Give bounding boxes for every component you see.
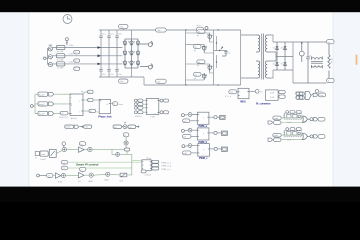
svg-text:Vdc: Vdc — [157, 81, 160, 83]
svg-text:T1Sw: T1Sw — [146, 158, 152, 160]
out2 oval — [163, 111, 168, 114]
mini row arrow — [80, 126, 84, 128]
wire T2 right green — [68, 167, 132, 169]
DC bus top rail — [99, 29, 241, 31]
IGBT S2 — [202, 45, 207, 52]
PWM group c wire in1 — [185, 145, 198, 148]
PWMU out oval b — [152, 164, 159, 167]
svg-text:D1: D1 — [273, 48, 275, 50]
svg-text:3ph dq: 3ph dq — [71, 118, 77, 120]
svg-text:ld: ld — [35, 158, 36, 160]
out1 circle — [159, 99, 163, 102]
svg-text:AvgdT: AvgdT — [39, 113, 46, 116]
svg-text:a: a — [71, 97, 72, 99]
svg-text:g2: g2 — [194, 50, 196, 52]
logic group 2 out tag — [314, 135, 325, 139]
svg-text:gatA: gatA — [274, 117, 279, 120]
snubber capacitor — [222, 51, 228, 57]
svg-text:0.4kv: 0.4kv — [69, 53, 74, 55]
from tag row1 oval — [138, 99, 143, 102]
block MUX — [238, 88, 249, 103]
sum circle 3 — [116, 153, 120, 157]
logic group 1 input tag B — [268, 121, 281, 125]
svg-text:th0: th0 — [114, 126, 117, 129]
svg-text:C2u: C2u — [110, 74, 113, 76]
svg-text:R1: R1 — [331, 59, 333, 61]
AC source Vc — [48, 63, 53, 67]
ref tag T1 oval — [61, 160, 68, 164]
PWM group b wire in2 — [191, 135, 197, 137]
wire row a — [54, 93, 70, 95]
gate tag g1 — [197, 30, 205, 34]
svg-text:th: th — [113, 103, 115, 106]
svg-text:Tm: Tm — [48, 176, 51, 178]
source circle above sum1 — [62, 142, 66, 148]
wire merge out — [311, 93, 314, 96]
filter capacitor C2 column — [107, 30, 111, 77]
mini row2 oval — [113, 125, 122, 129]
tag Vm oval — [88, 98, 94, 102]
svg-text:b: b — [71, 105, 72, 107]
junction dots on rails — [185, 29, 218, 85]
mini row tag oval — [84, 125, 92, 129]
svg-text:C1u: C1u — [102, 34, 105, 36]
from tag AvgdT a — [38, 92, 48, 96]
wire sumL3 to sat — [110, 173, 120, 176]
logic group 1 OR gate — [303, 116, 308, 122]
wire oval to tri — [53, 175, 56, 177]
mini row pentagon — [74, 125, 79, 128]
logic group 1 input tag A — [273, 116, 281, 120]
phase junction dot — [219, 50, 220, 51]
svg-text:PWM_c: PWM_c — [199, 157, 208, 160]
gain triangle 1 — [79, 147, 85, 152]
svg-text:Ic: Ic — [75, 69, 77, 71]
wire PLL out — [111, 103, 113, 105]
svg-text:Load: Load — [41, 154, 45, 156]
goto pentagon a — [49, 92, 54, 96]
voltage tag Vab oval — [119, 24, 129, 30]
out1 oval — [163, 99, 168, 102]
tag freq oval — [89, 109, 99, 113]
svg-text:o: o — [155, 113, 156, 115]
logic group 1 out circle — [308, 118, 313, 121]
letterbox bar bottom — [0, 187, 360, 202]
svg-text:Flag: Flag — [319, 95, 323, 97]
svg-text:1k: 1k — [331, 62, 333, 64]
PWM group c source circle — [182, 144, 192, 148]
logic group 2 OR gate — [303, 133, 308, 139]
PWM group a from oval — [183, 119, 190, 123]
measurement hook bottom — [140, 64, 152, 69]
goto tag Ia — [74, 51, 80, 55]
merge row2 circles — [296, 96, 303, 99]
pre block tiny — [35, 152, 39, 160]
svg-text:Phase_lock: Phase_lock — [98, 115, 112, 118]
current meter output — [299, 42, 304, 62]
goto pentagon b — [49, 102, 54, 106]
wire phase A — [53, 47, 123, 49]
svg-text:p: p — [203, 117, 204, 119]
svg-text:C3u: C3u — [118, 74, 121, 76]
svg-text:SatFl: SatFl — [270, 92, 275, 95]
svg-text:u-Tfeed: u-Tfeed — [144, 174, 151, 176]
H-bridge inner rail — [213, 30, 215, 85]
svg-text:p: p — [204, 149, 205, 151]
svg-text:C3u: C3u — [118, 34, 121, 36]
transformer T1 core — [262, 34, 264, 80]
logic group 2 input tag B — [268, 138, 281, 142]
bus step wire — [143, 77, 145, 85]
rectifier bridge leg 3 — [136, 39, 139, 68]
svg-text:AvgdT: AvgdT — [39, 93, 46, 96]
subsystem M block — [266, 90, 279, 100]
input port node N — [43, 57, 47, 60]
svg-text:C2u: C2u — [110, 34, 113, 36]
block LoadT — [40, 151, 48, 161]
PWM b out circle — [214, 131, 217, 134]
ref tag T2 oval — [61, 166, 68, 170]
signal arrow A — [98, 46, 101, 49]
svg-text:SatFl: SatFl — [270, 96, 275, 99]
output capacitor — [306, 42, 310, 83]
rate limiter block — [49, 149, 56, 157]
PWMU out oval c — [152, 167, 159, 170]
svg-text:Vdc: Vdc — [157, 30, 160, 32]
logic group 2 const ovals — [286, 128, 301, 131]
input bus vertical — [35, 94, 38, 113]
sum circle L2 — [89, 173, 93, 177]
output port tag top — [327, 40, 335, 44]
svg-text:1-DM T(u): 1-DM T(u) — [59, 117, 68, 119]
ref oval mid — [124, 148, 130, 154]
source bus vertical — [47, 48, 49, 65]
aux rail dots — [216, 42, 217, 62]
subsystem Phase_lock — [98, 99, 112, 118]
IGBT S1 — [208, 33, 213, 41]
input port In1 — [30, 105, 35, 108]
output left vertical — [292, 42, 294, 83]
bridge device diode ticks — [123, 41, 135, 62]
svg-text:Ib: Ib — [75, 61, 77, 63]
diode D4 — [284, 63, 287, 66]
PWM_U generator block — [142, 160, 151, 171]
svg-text:AvgdT: AvgdT — [39, 103, 46, 106]
phase arrow — [221, 47, 223, 49]
svg-text:Sat1: Sat1 — [120, 179, 124, 182]
wire sumL1 to gain2 — [66, 174, 79, 176]
window margin right — [333, 12, 360, 187]
svg-text:th: th — [107, 103, 109, 106]
gate tag g4 — [194, 72, 202, 76]
capacitor C2 labels — [110, 34, 113, 76]
wire block1 out2 — [83, 99, 88, 101]
phase out line — [214, 50, 228, 52]
PWM group c from oval — [182, 151, 191, 155]
aux tag above rail — [197, 25, 209, 31]
svg-text:PWM_U_c: PWM_U_c — [161, 169, 171, 171]
svg-text:M_converter: M_converter — [256, 102, 270, 105]
gate label texts — [194, 35, 199, 80]
filter capacitor C1 column — [99, 30, 103, 77]
logic group 2 delay box dashed — [285, 130, 302, 136]
svg-text:E T L s: E T L s — [225, 96, 231, 98]
output port tag bottom — [327, 78, 335, 82]
capacitor C1 labels — [102, 34, 105, 76]
svg-text:Add2: Add2 — [89, 180, 93, 183]
from tag row2 circle — [134, 103, 137, 106]
transformer T1 primary winding upper — [256, 35, 260, 52]
PWM group c wire in2 — [191, 152, 198, 154]
svg-text:g1: g1 — [197, 35, 199, 37]
svg-text:V-: V- — [328, 81, 330, 83]
voltage tag Vab2 oval bottom — [119, 79, 129, 83]
from tag AvgdT c — [38, 111, 48, 115]
capacitor C3 labels — [118, 34, 121, 76]
sum circle 2 — [88, 147, 92, 151]
wire phase C — [53, 63, 123, 65]
canvas edge left — [28, 12, 30, 187]
tag theta oval — [113, 102, 124, 106]
wire sum down — [125, 145, 127, 148]
logic group 2 input tag A — [273, 133, 281, 137]
DC bus bottom rail left — [99, 76, 144, 78]
mini row2 arrow — [136, 126, 139, 128]
svg-text:D4: D4 — [281, 64, 283, 66]
logic group 1 delay box dashed — [285, 113, 302, 119]
svg-text:LoadT: LoadT — [40, 159, 46, 161]
lower triangle 1 — [55, 173, 61, 178]
PWM block c — [198, 144, 210, 157]
wire gain1 to sum2 — [84, 149, 88, 151]
mini row2 tag oval — [128, 125, 136, 129]
svg-text:dc in: dc in — [197, 25, 201, 27]
subsystem comp — [146, 99, 159, 119]
PWM group b wire in1 — [184, 129, 197, 132]
gain Ki oval — [80, 167, 86, 172]
load resistor label — [331, 59, 333, 64]
mini row goto oval — [65, 125, 74, 129]
wire phase B — [53, 55, 123, 57]
saturation block — [120, 173, 127, 177]
bridge top tie — [125, 30, 138, 39]
from tag row2 oval — [138, 103, 143, 106]
PWM group b from oval — [182, 134, 191, 138]
measurement hook top — [140, 41, 152, 46]
PWM block a — [197, 112, 209, 124]
tag Vabc oval — [88, 90, 94, 94]
merge row2 oval — [296, 96, 304, 100]
secondary wires — [270, 35, 294, 78]
signal arrow C — [98, 63, 101, 66]
M block out tag 2 — [279, 95, 285, 98]
sum circle L3 — [106, 172, 110, 176]
wire tri to sumL1 — [60, 175, 62, 177]
lookup table 1-D T(u) — [59, 111, 68, 119]
wire sum3 out — [120, 154, 132, 160]
svg-text:Ta s-Rb: Ta s-Rb — [57, 68, 64, 70]
H-bridge left rail — [185, 30, 187, 85]
series RL branch Zb — [56, 54, 65, 62]
AC source Va — [48, 47, 53, 51]
wire row c — [54, 113, 60, 115]
svg-text:PWM_U_b: PWM_U_b — [161, 166, 172, 168]
svg-text:0.4kv: 0.4kv — [69, 61, 74, 63]
wire lookup to block — [68, 113, 70, 115]
sum circle 1 — [62, 147, 66, 151]
input port lower — [37, 174, 47, 177]
svg-text:latch: latch — [287, 121, 291, 124]
logic group 2 out circle — [308, 135, 313, 138]
svg-text:Cs: Cs — [228, 52, 230, 54]
svg-text:Vr: Vr — [124, 135, 126, 137]
wire row b — [54, 103, 70, 105]
PWM group b source circle — [181, 128, 192, 132]
out2 circle — [159, 111, 163, 114]
svg-text:fq: fq — [90, 111, 92, 113]
wire sumL2 right — [93, 173, 105, 176]
choke winding lower — [312, 65, 323, 68]
choke core — [311, 62, 323, 64]
svg-text:D3: D3 — [281, 48, 283, 50]
diode D3 — [284, 42, 287, 70]
signal arrow B — [98, 54, 101, 57]
filter capacitor C3 column — [115, 30, 119, 77]
svg-text:C1u: C1u — [309, 55, 312, 57]
wire loadT chain — [48, 150, 62, 153]
canvas edge right — [332, 12, 334, 187]
merge row1 oval — [296, 92, 304, 96]
from tag row4 oval — [138, 111, 143, 114]
svg-text:1e3w: 1e3w — [66, 127, 71, 129]
PWM b out block — [217, 131, 227, 135]
bridge bottom tie — [125, 68, 138, 77]
svg-text:ZOH1-4: ZOH1-4 — [135, 116, 142, 118]
letterbox bar top — [0, 0, 360, 12]
gain triangle 2 — [79, 172, 85, 178]
PWM group a wire in1 — [184, 114, 197, 117]
gate tag g2 — [194, 45, 202, 49]
PWM a out circle — [214, 116, 217, 119]
from tag row1 circle — [134, 99, 137, 102]
from tag AvgdT b — [38, 102, 48, 106]
svg-text:u: u — [79, 101, 80, 103]
from tag row3 circle — [134, 106, 137, 109]
transformer T1 primary winding lower — [256, 61, 260, 78]
PWM group a source circle — [181, 113, 192, 117]
merge row1 circles — [296, 92, 303, 95]
svg-text:C1u: C1u — [102, 74, 105, 76]
IGBT S3 — [208, 64, 213, 72]
svg-text:g2: g2 — [195, 47, 197, 49]
sum junction upper — [124, 141, 128, 145]
diode D1 — [276, 42, 279, 70]
svg-text:MUX: MUX — [240, 100, 246, 103]
rectifier rail top — [273, 41, 327, 43]
wire MUX out — [249, 91, 255, 93]
wires rows to subsystem — [143, 101, 146, 113]
PWM b out wire — [209, 132, 214, 134]
wire sat up to bus — [127, 161, 132, 175]
svg-text:mU: mU — [183, 121, 187, 123]
series RL branch Za — [56, 45, 65, 53]
goto tag Ic — [74, 67, 80, 71]
svg-text:Add3: Add3 — [105, 179, 109, 182]
wire ref to sum — [125, 137, 127, 141]
window margin left — [0, 12, 29, 187]
svg-text:p: p — [203, 133, 204, 135]
AC source Vb — [48, 55, 53, 59]
svg-text:1 GW: 1 GW — [150, 117, 155, 119]
logic group 2 wires — [281, 131, 303, 140]
clock block — [63, 15, 72, 24]
svg-text:latch: latch — [287, 138, 291, 141]
transformer T1 secondary winding lower — [266, 61, 270, 78]
wire block1 out1 — [83, 92, 88, 94]
goto tag Ib — [74, 59, 80, 63]
wire block1 out3 — [83, 110, 89, 112]
from tag row3 oval — [138, 106, 143, 109]
load resistor R1 — [328, 42, 330, 83]
voltage tag Vdc2 oval bottom — [156, 79, 167, 83]
rectifier rail bottom — [273, 69, 293, 71]
wire upper sum join — [112, 148, 126, 149]
transformer T1 secondary winding upper — [266, 35, 270, 52]
IGBT S4 — [202, 73, 207, 80]
tag 1T1s oval — [225, 90, 237, 98]
svg-text:Sub1: Sub1 — [58, 181, 62, 183]
svg-text:PWM_U_a: PWM_U_a — [161, 162, 172, 164]
voltage tag Vdc oval — [156, 28, 167, 32]
flag tag oval — [313, 93, 325, 97]
scrollbar thumb orange — [356, 55, 358, 66]
merge block — [305, 92, 311, 100]
svg-text:Out: Out — [260, 91, 264, 94]
svg-text:gatB: gatB — [274, 134, 279, 137]
PWM c out wire — [209, 148, 214, 150]
feed oval below block — [141, 170, 151, 176]
svg-text:D2: D2 — [273, 64, 275, 66]
out circle flag — [315, 90, 318, 93]
svg-text:w12: w12 — [85, 127, 88, 129]
svg-text:0.4kv: 0.4kv — [69, 45, 74, 47]
series RL branch Zc — [56, 62, 65, 70]
wire gain2 to sumL2 — [84, 174, 89, 176]
H-bridge mesh wires — [186, 33, 214, 80]
bottom row sublabels — [58, 179, 123, 184]
PWM group a wire in2 — [190, 120, 198, 122]
wire sum2 right — [92, 149, 116, 154]
logic group 1 out tag — [314, 117, 325, 121]
gate tag g3 — [197, 60, 205, 64]
output bottom rail — [293, 82, 327, 84]
goto pentagon c — [49, 112, 54, 116]
PWM c out circle — [214, 147, 217, 150]
choke winding upper — [312, 57, 323, 60]
PWMU out oval a — [152, 160, 159, 163]
diode D2 — [276, 63, 279, 66]
svg-text:g3: g3 — [197, 65, 199, 67]
DC bus bottom rail right — [144, 84, 241, 86]
svg-text:Ta s-Rb: Ta s-Rb — [57, 51, 64, 53]
ref oval top — [123, 133, 129, 137]
M block out tag 1 — [279, 90, 285, 93]
H-bridge aux rail segments — [216, 36, 218, 68]
mini row2 circle — [122, 122, 127, 129]
tag oval lower — [47, 174, 53, 178]
svg-text:mW: mW — [183, 153, 187, 155]
from tag row4 circle — [134, 111, 137, 114]
